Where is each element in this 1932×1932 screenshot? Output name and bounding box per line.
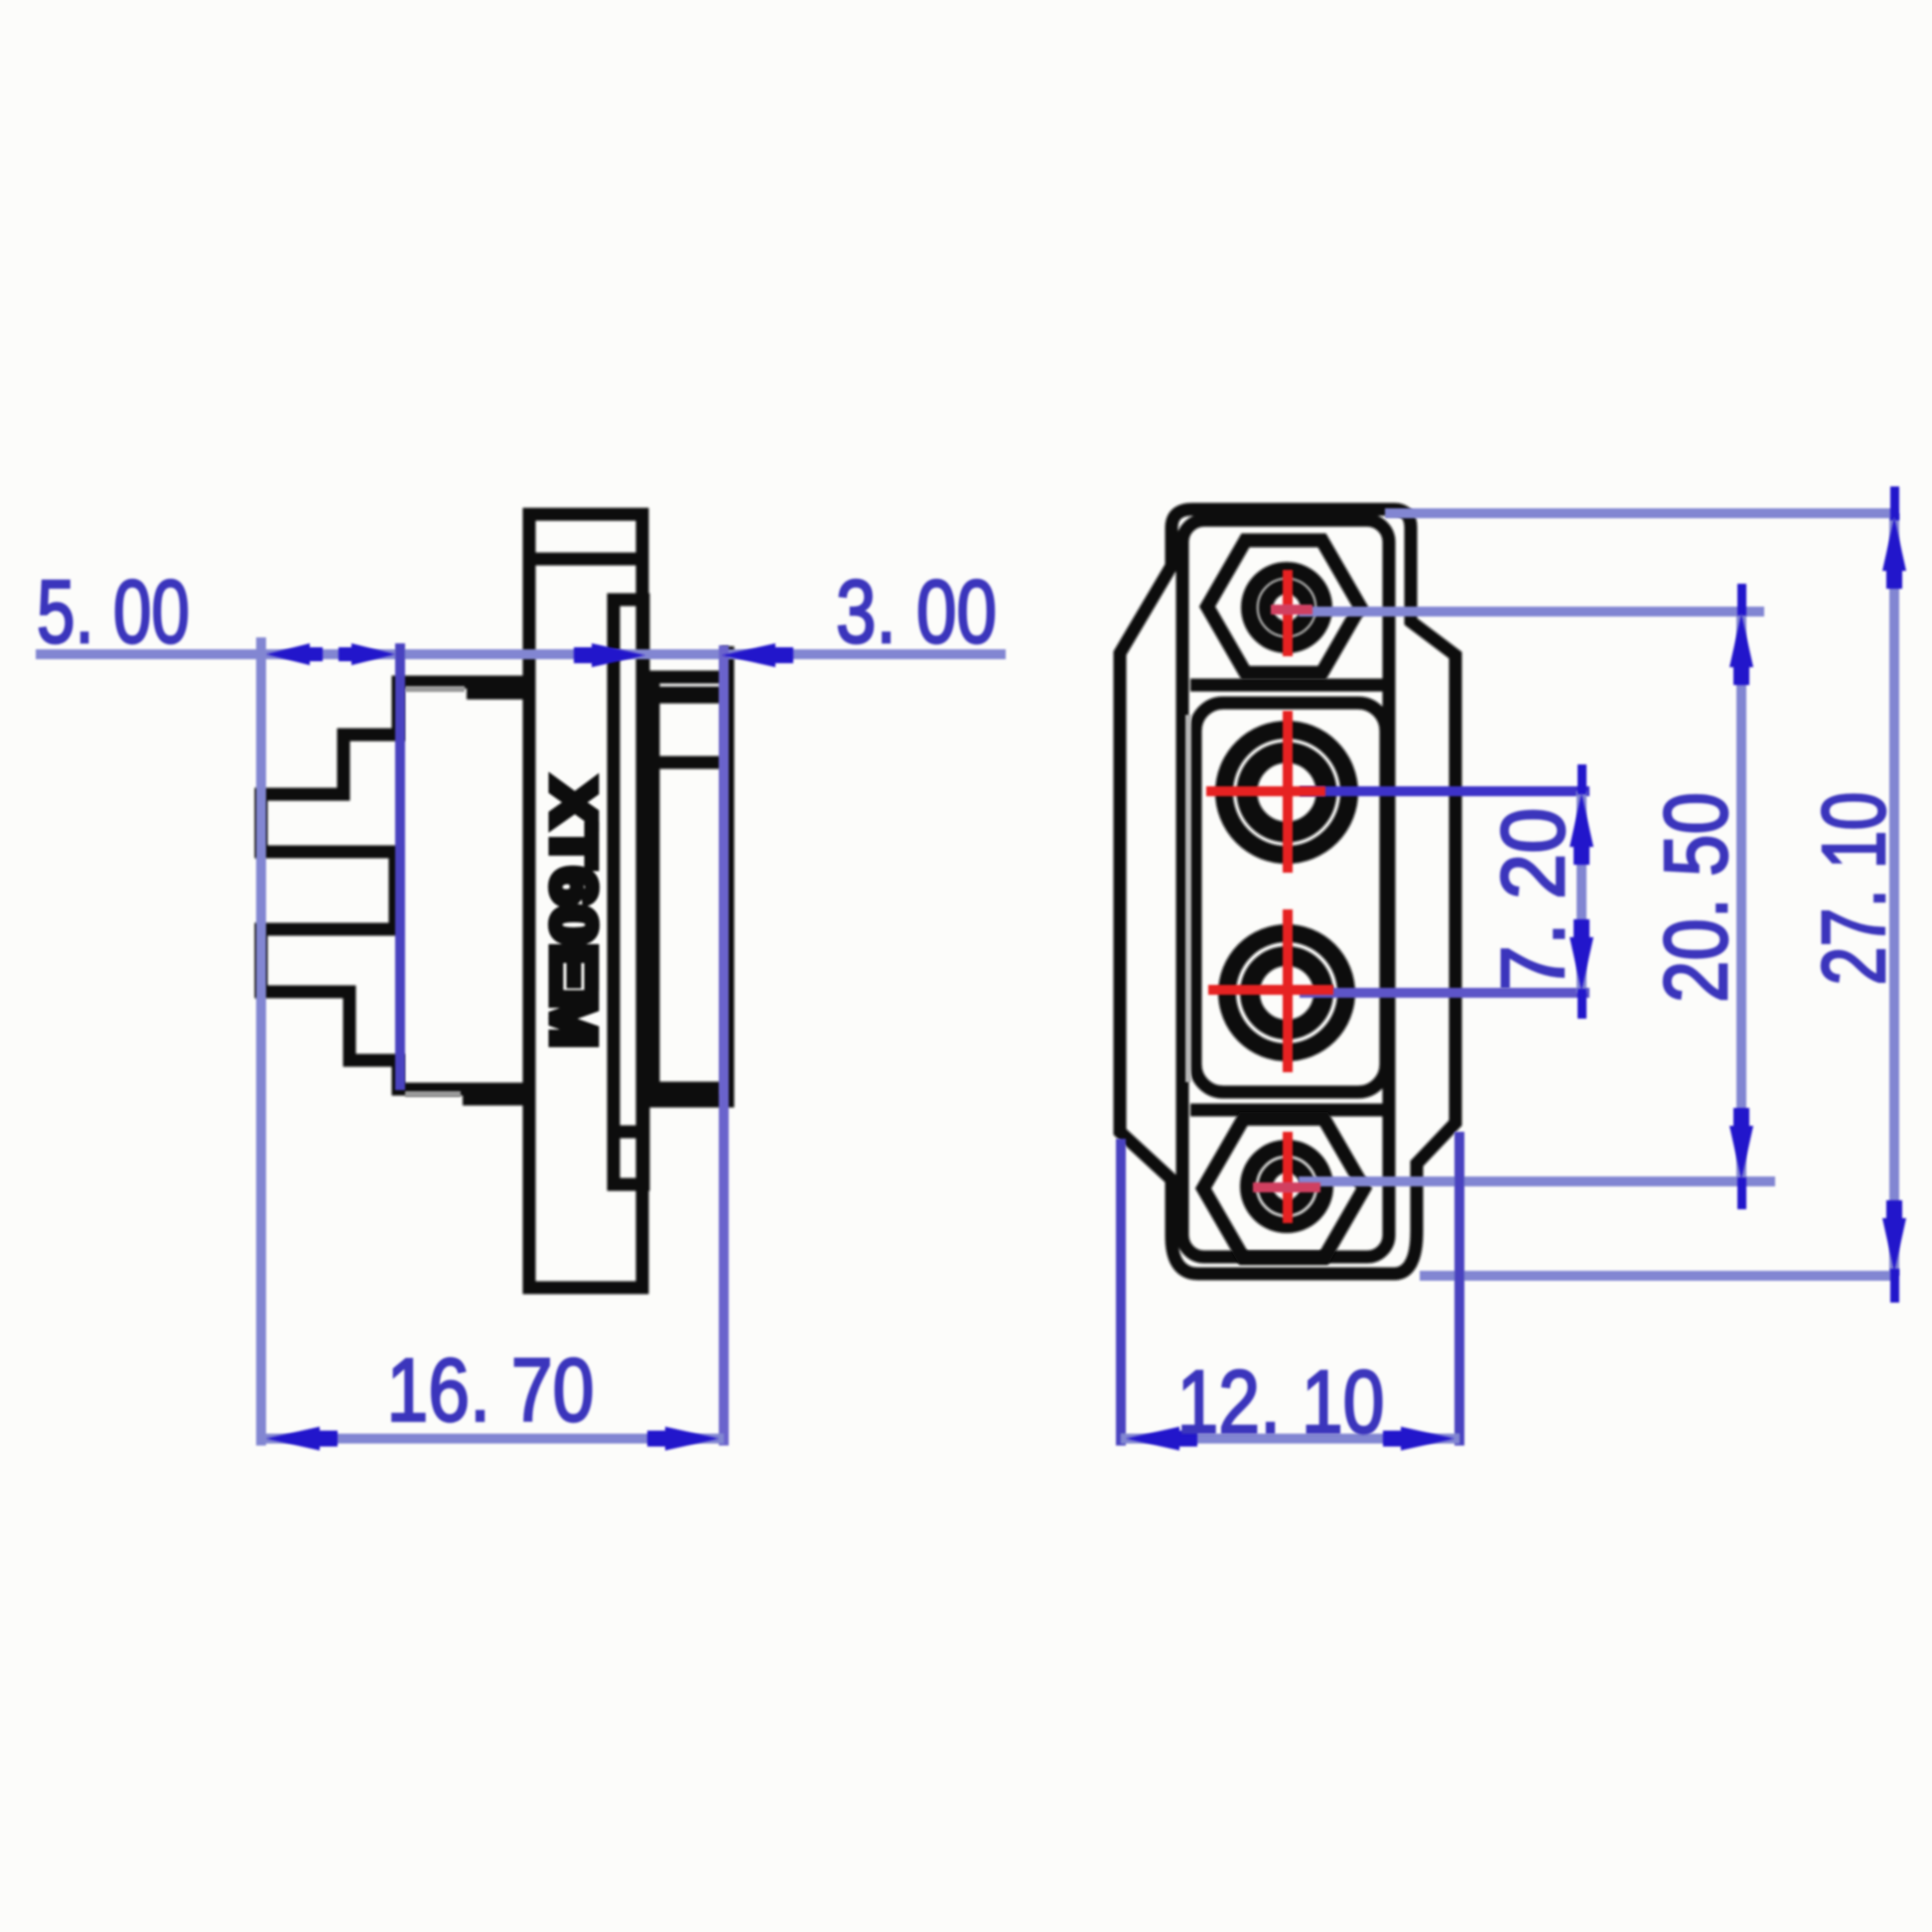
flange plate (tall rectangle)	[529, 514, 642, 1288]
bottom nut outer circle	[1248, 1148, 1325, 1225]
svg-text:27. 10: 27. 10	[1805, 792, 1904, 986]
separator line above bottom nut	[1190, 1104, 1384, 1117]
front shell plate	[653, 677, 728, 1101]
27.10 dimension line	[1889, 513, 1899, 1276]
centerline top nut horizontal	[1271, 605, 1312, 615]
svg-text:12. 10: 12. 10	[1177, 1353, 1385, 1452]
body face rounded rectangle	[1182, 520, 1389, 1257]
plus pin inner circle	[1247, 753, 1326, 832]
pin pocket rounded rectangle	[1195, 703, 1386, 1092]
front shell groove line 1	[653, 687, 721, 704]
svg-text:7. 20: 7. 20	[1484, 808, 1584, 992]
inner plate cap line	[614, 1126, 643, 1139]
plus pin outer circle	[1224, 730, 1349, 855]
7.20 top extension line	[1300, 786, 1589, 796]
outer flange outline with ears	[1120, 509, 1455, 1274]
bottom nut hexagon	[1203, 1119, 1364, 1258]
arrow 5.00 right	[339, 643, 395, 665]
dimension line row 5.00 / 3.00	[36, 649, 1006, 659]
20.50 dimension line	[1736, 612, 1746, 1181]
extension line right plate rear (x=729)	[719, 645, 729, 1446]
extension line body front (x=403)	[395, 643, 405, 1090]
top nut hexagon	[1207, 540, 1360, 672]
27.10 top extension line	[1385, 508, 1897, 518]
20.50 bottom extension line	[1299, 1176, 1775, 1186]
arrow 16.70 left	[266, 1427, 338, 1450]
arrow 27.10 top	[1882, 486, 1906, 589]
27.10 bottom extension line	[1420, 1271, 1897, 1281]
dimension line 16.70	[261, 1434, 724, 1444]
centerline plus pin horizontal	[1206, 786, 1325, 796]
centerline plus pin vertical	[1283, 711, 1293, 873]
arrow 20.50 top	[1729, 584, 1753, 685]
front shell groove line 3	[653, 1082, 721, 1095]
minus pin outer circle	[1227, 933, 1346, 1052]
12.10 dimension line	[1121, 1434, 1459, 1444]
separator line below top nut	[1190, 679, 1384, 692]
centerline bottom nut horizontal	[1253, 1182, 1320, 1192]
bottom nut inner circle	[1266, 1166, 1308, 1207]
svg-text:20. 50: 20. 50	[1647, 792, 1746, 1003]
arrow 3.00 right (outside)	[722, 643, 793, 667]
svg-text:16. 70: 16. 70	[387, 1341, 595, 1441]
top nut outer circle	[1249, 570, 1324, 645]
12.10 left extension line	[1116, 1139, 1126, 1446]
svg-text:XT60EM: XT60EM	[539, 779, 608, 1047]
flange top cap line	[529, 553, 642, 566]
arrow 7.20 bottom	[1570, 919, 1593, 1019]
arrows, bright blue	[266, 486, 1906, 1450]
body top notch line	[467, 687, 529, 700]
centerline top nut vertical	[1283, 570, 1293, 656]
gray scan shading accents	[405, 689, 1188, 1094]
extension line left of body (x=263)	[256, 637, 266, 1446]
20.50 top extension line	[1299, 607, 1764, 617]
centerline bottom nut vertical	[1283, 1132, 1293, 1223]
centerline minus pin horizontal	[1208, 985, 1333, 995]
front shell groove line 2	[653, 757, 721, 769]
arrow 12.10 right	[1383, 1427, 1454, 1450]
7.20 dimension line	[1577, 791, 1587, 993]
body stepped outline (side view)	[261, 682, 529, 1089]
arrow 16.70 right	[647, 1427, 719, 1450]
7.20 bottom extension line	[1300, 988, 1589, 998]
minus pin inner circle	[1250, 956, 1323, 1030]
arrow 27.10 bottom	[1882, 1200, 1906, 1303]
front shell right edge upper stub	[722, 646, 735, 679]
arrow 5.00 left	[266, 643, 323, 665]
arrow 12.10 left	[1126, 1427, 1197, 1450]
inner plate	[614, 600, 643, 1184]
XT60E-M marking rotated	[539, 779, 608, 1047]
centerline minus pin vertical	[1283, 909, 1293, 1072]
svg-text:5. 00: 5. 00	[37, 563, 190, 662]
arrow 7.20 top	[1570, 764, 1593, 865]
12.10 right extension line	[1454, 1132, 1464, 1446]
svg-text:3. 00: 3. 00	[836, 563, 997, 662]
arrow 3.00 left (outside)	[574, 643, 645, 667]
top nut inner circle	[1266, 587, 1308, 628]
body bottom notch line	[463, 1093, 533, 1106]
arrow 20.50 bottom	[1729, 1108, 1753, 1209]
